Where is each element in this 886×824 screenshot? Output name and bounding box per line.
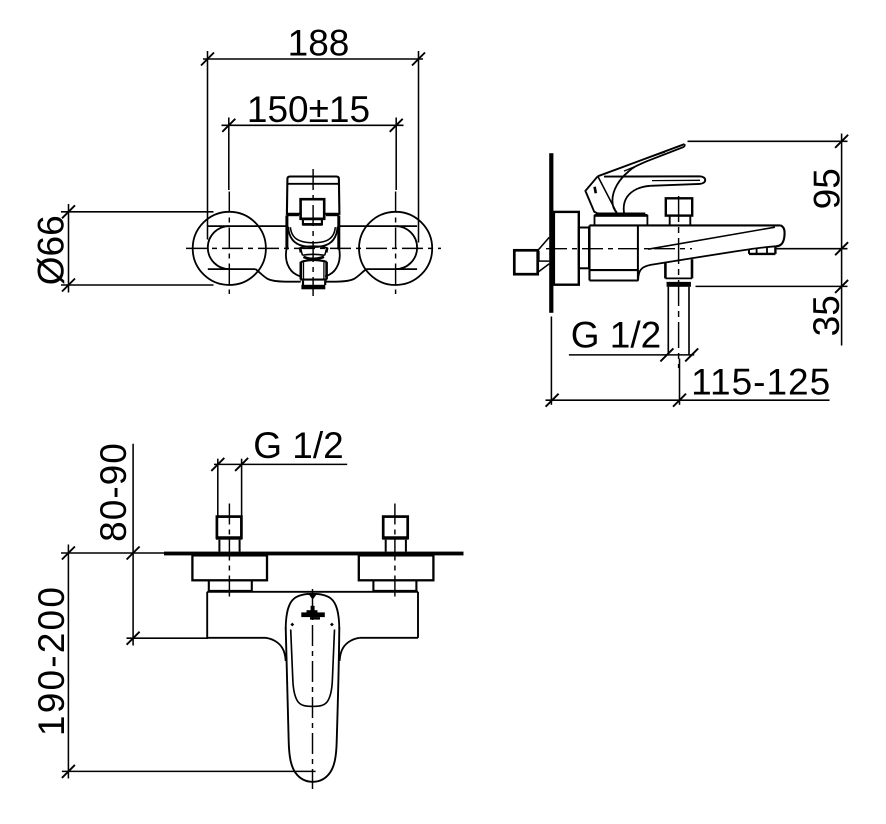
supply union tab edge <box>538 251 540 261</box>
shower outlet side bold left <box>299 262 302 280</box>
spout mouth bottom line <box>303 254 325 255</box>
extension line 95 top <box>688 140 848 142</box>
extension line 188 left <box>207 51 209 240</box>
aerator left edge <box>748 249 750 254</box>
nipple right neck left <box>385 540 387 552</box>
flange bold segment left <box>286 213 299 216</box>
nipple left neck right <box>239 540 241 552</box>
tick G12 right <box>685 348 698 361</box>
body bottom skirt <box>590 279 639 281</box>
svg-text:G 1/2: G 1/2 <box>253 425 344 466</box>
wall extension line below <box>550 317 552 405</box>
extension line pipe center <box>679 359 681 405</box>
dimension 150±15 tick right <box>390 119 403 132</box>
spout mouth top wavy line <box>300 246 328 248</box>
svg-text:80-90: 80-90 <box>93 442 134 542</box>
spout underside <box>638 246 775 280</box>
centerline vertical middle <box>312 169 314 296</box>
tongue S-curve right <box>340 638 360 661</box>
side centerline horizontal <box>546 248 692 250</box>
escutcheon right step <box>373 580 416 591</box>
bell silhouette curve right <box>325 248 340 277</box>
svg-text:115-125: 115-125 <box>691 362 831 403</box>
aerator right edge <box>774 246 776 254</box>
dimension 188 tick right <box>412 53 425 66</box>
escutcheon left step bold base <box>208 590 252 593</box>
nipple centerline right <box>394 504 396 600</box>
shower outlet top arc <box>301 260 327 262</box>
spout waterway line <box>648 227 775 249</box>
dome screw mark wide bar <box>301 612 325 617</box>
tick 115 right <box>673 394 686 407</box>
extension line ø66 top <box>61 211 214 213</box>
body capsule left end arc <box>208 226 230 269</box>
handle gap bold line <box>596 213 645 216</box>
spout tip edge <box>775 225 784 246</box>
handle blade underside <box>612 147 684 213</box>
dimension ø66 tick bottom <box>62 279 75 292</box>
extension line nipple right <box>241 459 243 516</box>
dome apex dart <box>309 594 317 599</box>
top outlet neck right <box>689 216 691 226</box>
spout mouth taper left <box>300 248 302 255</box>
flange bold segment right <box>326 213 339 216</box>
supply union tab top <box>538 260 549 262</box>
body bottom edge left <box>207 637 265 639</box>
extension line nipple left <box>217 459 219 516</box>
centerline vertical left circle <box>228 192 230 295</box>
nipple left band <box>216 537 243 540</box>
body capsule bottom edge left segment <box>208 268 256 270</box>
cartridge nut step bold base <box>302 223 322 226</box>
handle blade highlight 2 <box>624 164 642 171</box>
bell inner curve <box>290 227 335 243</box>
supply union block behind wall <box>514 250 537 274</box>
hose collar left bold <box>664 262 667 278</box>
hose collar black band <box>667 283 691 287</box>
tick 115 left <box>546 394 559 407</box>
wall level extension left <box>61 552 165 554</box>
tick 80-90 bottom <box>127 632 140 645</box>
shower outlet inner line right <box>323 262 325 278</box>
hose collar right bold <box>691 259 694 278</box>
dimension 188 line <box>203 58 423 60</box>
spout top edge <box>590 224 781 226</box>
valve body side bold right <box>337 216 340 250</box>
extension line 80-90 <box>127 637 209 639</box>
shower outlet lower block right <box>324 281 326 285</box>
dome screw mark foot <box>310 617 320 620</box>
dimension 150±15 line <box>222 124 404 126</box>
svg-text:35: 35 <box>806 295 847 336</box>
shower outlet black band <box>301 285 325 290</box>
svg-text:95: 95 <box>807 168 848 209</box>
svg-text:150±15: 150±15 <box>247 89 370 130</box>
top outlet block <box>666 198 692 215</box>
body right edge <box>637 225 639 280</box>
spout mouth bold tick right <box>326 248 327 253</box>
nipple right block <box>383 517 408 538</box>
cartridge nut <box>301 199 325 219</box>
dimension G 1/2 side line <box>569 354 694 356</box>
escutcheon side profile <box>554 212 579 285</box>
tick G12 left <box>660 348 673 361</box>
handle tongue outline <box>286 628 340 782</box>
connection neck behind body <box>579 228 589 269</box>
supply diagonal lower <box>538 264 549 272</box>
handle pivot mark <box>595 187 596 193</box>
hose collar ring line 1 <box>665 277 692 279</box>
extension line 188 right <box>418 51 420 243</box>
tick 190-200 top <box>62 547 75 560</box>
aerator divider 1 <box>756 249 758 254</box>
dimension line 95-35 vertical <box>841 134 843 346</box>
FRONT VIEW <box>30 23 441 297</box>
nipple right neck right <box>405 540 407 552</box>
dimension 190-200 line <box>67 545 69 779</box>
tick 80-90 top <box>127 547 140 560</box>
aerator bottom edge <box>749 253 775 255</box>
extension line ø66 bottom <box>61 284 214 286</box>
dome screw mark mid bar <box>307 610 318 612</box>
handle cap box <box>287 177 340 214</box>
dome diamond left <box>290 623 294 627</box>
valve body side bold left <box>285 216 288 250</box>
wall line thick <box>549 153 553 313</box>
nipple right band <box>382 537 409 540</box>
handle blade highlight 1 <box>648 152 666 158</box>
tick 190-200 bottom <box>62 765 75 778</box>
body capsule right end arc <box>396 226 418 269</box>
body bottom edge right <box>360 637 418 639</box>
body left edge <box>588 225 590 280</box>
extension line 35 bottom <box>696 285 848 287</box>
tongue S-curve left <box>266 638 286 661</box>
dimension 115-125 line <box>546 399 830 401</box>
escutcheon right step bold base <box>373 590 417 593</box>
handle arm underside curve <box>624 186 651 213</box>
handle blade tip <box>683 144 686 147</box>
PLAN VIEW <box>31 425 464 789</box>
cartridge flange bold top <box>595 214 648 217</box>
aerator divider 2 <box>766 248 768 254</box>
body left edge plan <box>206 592 208 638</box>
tick G12 plan left <box>211 458 224 471</box>
bell silhouette curve left <box>286 248 301 277</box>
wall line thick plan <box>164 552 464 556</box>
dome screw mark nub <box>311 606 315 611</box>
dimension 80-90 line <box>132 444 134 646</box>
handle base quad <box>585 176 598 213</box>
bell outer curve <box>288 227 337 247</box>
dimension 150±15 tick left <box>222 119 235 132</box>
top outlet neck left <box>669 216 671 226</box>
hose pipe right <box>688 287 690 355</box>
cartridge nut step <box>303 219 322 224</box>
extension line 190-200 <box>62 770 316 772</box>
body top edge plan <box>207 591 418 593</box>
dimension G 1/2 plan line <box>214 463 347 465</box>
handle base inner diagonal <box>598 177 616 212</box>
nipple left block <box>217 517 242 538</box>
body dip curve right <box>326 269 366 282</box>
centerline horizontal <box>186 247 441 249</box>
escutcheon right plan <box>359 555 434 580</box>
shower outlet inner line left <box>303 262 305 278</box>
shower outlet step band <box>300 279 327 281</box>
shower outlet side bold right <box>325 262 328 280</box>
handle grip inner outline <box>291 630 335 707</box>
hose collar ring line 2 <box>667 282 691 284</box>
extension line 150 left <box>228 118 230 191</box>
tick center <box>835 242 848 255</box>
handle arm top edge <box>604 176 705 186</box>
spout mouth dark arc <box>303 257 324 259</box>
spout mouth bold tick left <box>300 248 301 253</box>
escutcheon circle right <box>359 212 432 285</box>
spout mouth taper right <box>325 248 327 255</box>
supply diagonal upper <box>538 237 549 250</box>
SIDE VIEW <box>514 134 848 407</box>
body divider line <box>590 269 638 271</box>
centerline vertical right circle <box>395 192 397 295</box>
escutcheon left plan <box>192 555 267 580</box>
tick 95 top <box>835 135 848 148</box>
body capsule top edge left segment <box>208 225 287 227</box>
body capsule bottom edge right segment <box>366 268 417 270</box>
cartridge flange box <box>595 216 648 226</box>
escutcheon circle left <box>193 212 266 285</box>
svg-text:190-200: 190-200 <box>31 585 72 736</box>
handle dome arc <box>286 594 340 629</box>
tick 35 bottom <box>835 280 848 293</box>
handle arm inner line <box>652 179 700 181</box>
nipple left neck left <box>218 540 220 552</box>
dimension ø66 tick top <box>62 205 75 218</box>
svg-text:G 1/2: G 1/2 <box>571 314 662 355</box>
extension line 150 right <box>395 118 397 191</box>
hose pipe left <box>667 287 669 355</box>
body capsule top edge right segment <box>339 225 417 227</box>
extension line center <box>777 248 848 250</box>
body dip curve left <box>256 269 301 282</box>
nipple centerline left <box>228 504 230 600</box>
plan centerline vertical <box>312 589 314 789</box>
tick G12 plan right <box>235 458 248 471</box>
body right edge plan <box>417 592 419 638</box>
svg-text:188: 188 <box>288 23 350 64</box>
side centerline vertical <box>678 196 680 368</box>
handle blade top edge <box>598 144 685 176</box>
shower outlet lower block left <box>302 281 304 285</box>
dimension 188 tick left <box>201 53 214 66</box>
dimension ø66 line <box>68 204 70 293</box>
svg-text:Ø66: Ø66 <box>30 215 71 285</box>
escutcheon left step <box>209 580 252 591</box>
handle cap seam line <box>287 183 339 185</box>
dome diamond right <box>330 623 334 627</box>
